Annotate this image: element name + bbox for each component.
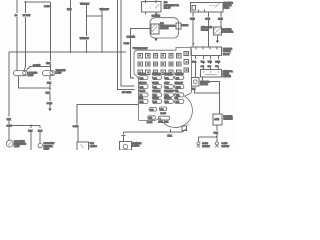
park lamp circle bbox=[6, 140, 13, 147]
diode D1 box bbox=[176, 23, 181, 29]
svg-text:BLK: BLK bbox=[164, 122, 169, 124]
wire blower stub 3 bbox=[210, 56, 212, 70]
relay switch diagonal bbox=[155, 4, 159, 8]
wire ORN drop 2 bbox=[207, 12, 209, 47]
license connector dash bbox=[122, 134, 126, 136]
svg-text:TAIL: TAIL bbox=[90, 142, 95, 145]
clutch coil hatch bbox=[152, 25, 158, 32]
arrow resistor stub bbox=[216, 41, 219, 44]
relay inner dot bbox=[149, 7, 150, 8]
blower switch box bbox=[201, 70, 222, 78]
svg-text:TAN/WHT: TAN/WHT bbox=[80, 37, 90, 40]
svg-text:BLK: BLK bbox=[7, 119, 12, 121]
hi blower inner ticks bbox=[196, 47, 217, 49]
svg-text:BLK: BLK bbox=[46, 92, 51, 94]
cloud pill 1 bbox=[149, 108, 156, 112]
junction license bbox=[170, 131, 172, 133]
fuse cavity pill r2c3 bbox=[164, 85, 173, 89]
svg-text:LAMP: LAMP bbox=[14, 145, 20, 148]
svg-text:A/C: A/C bbox=[160, 22, 164, 25]
junction block inner fuse bbox=[192, 6, 196, 10]
wire to ground 2 bbox=[216, 137, 218, 142]
svg-text:YEL: YEL bbox=[201, 61, 206, 63]
fuse cavity pill r4c4 bbox=[175, 99, 184, 103]
wire blower stub 2 bbox=[203, 56, 205, 70]
svg-text:HAZARD: HAZARD bbox=[152, 72, 160, 75]
svg-text:BLOCK: BLOCK bbox=[201, 30, 209, 32]
svg-text:DK GRN: DK GRN bbox=[152, 15, 161, 17]
svg-text:* FUSE BLOCK: * FUSE BLOCK bbox=[133, 48, 148, 50]
svg-text:ORN: ORN bbox=[215, 61, 220, 63]
svg-text:PWR WDO: PWR WDO bbox=[164, 91, 174, 93]
ground bus bottom-left bbox=[9, 125, 40, 127]
svg-text:PANEL: PANEL bbox=[223, 73, 231, 76]
svg-text:TAIL: TAIL bbox=[175, 90, 179, 93]
connector tick bbox=[187, 124, 190, 126]
hi blower relay box bbox=[191, 47, 221, 55]
wire ORN drop 3 bbox=[220, 12, 222, 27]
fuse cavity pill r3c1 bbox=[139, 93, 148, 97]
cloud pill 3 bbox=[148, 116, 156, 120]
svg-text:TAN/WHT: TAN/WHT bbox=[100, 8, 110, 11]
svg-text:MARKER: MARKER bbox=[44, 145, 53, 148]
fuse cavity pill r1c3 bbox=[164, 76, 173, 80]
tail lamp inner bbox=[81, 145, 84, 149]
ground G103 bbox=[215, 142, 218, 145]
wire down to connector bbox=[219, 93, 221, 114]
headlamp R drop from bus bbox=[49, 52, 51, 71]
svg-text:RESISTOR: RESISTOR bbox=[222, 32, 233, 34]
fuse cavity pill r2c1 bbox=[139, 85, 148, 89]
wire ORN drop 1 bbox=[192, 12, 194, 47]
fuse cavity pill r3c2 bbox=[152, 93, 161, 97]
marker lamp circle bbox=[38, 143, 42, 147]
fuse cavity pill r3c3 bbox=[164, 93, 173, 97]
license lamp box bbox=[120, 142, 132, 151]
headlamp R inner circle bbox=[50, 72, 53, 75]
fuse cavity pill r1c4 bbox=[175, 76, 184, 80]
wire between lamps bbox=[26, 67, 50, 71]
wire clutch to fuse block bbox=[131, 29, 152, 78]
connector box on cloud edge bbox=[182, 126, 187, 131]
fuse block outline bbox=[134, 47, 192, 127]
svg-text:ORN: ORN bbox=[214, 119, 219, 121]
blower resistor R1 bbox=[213, 27, 221, 35]
svg-text:18 BRN: 18 BRN bbox=[33, 65, 41, 67]
wire left ground vertical bbox=[8, 52, 10, 140]
svg-text:PNK: PNK bbox=[46, 63, 51, 65]
wire connector down bbox=[216, 125, 218, 137]
svg-text:C 280: C 280 bbox=[147, 122, 153, 124]
cloud pill 2 bbox=[159, 107, 166, 111]
junction block ticks bbox=[198, 10, 204, 13]
blower motor box bbox=[192, 78, 199, 87]
fuse grid row 3 bbox=[138, 68, 189, 75]
wire TAN/WHT vertical bbox=[86, 5, 88, 52]
headlamp R oval bbox=[43, 71, 56, 76]
park lamp filament bbox=[8, 142, 11, 145]
clutch connector cloud bbox=[150, 18, 179, 38]
junction lamp ground bbox=[49, 87, 51, 89]
wire BRN vertical bbox=[70, 0, 72, 52]
junction motor ground bbox=[219, 92, 221, 94]
svg-text:FU STEM: FU STEM bbox=[122, 92, 131, 94]
wire top horizontal to C100 bbox=[25, 1, 50, 3]
license lamp inner bbox=[123, 144, 127, 148]
wire long pair inner bbox=[121, 0, 134, 86]
relay U1 box bbox=[142, 2, 162, 13]
svg-text:TAN/WHT: TAN/WHT bbox=[80, 2, 90, 5]
fuse dots bbox=[139, 52, 187, 73]
svg-text:LAMPS: LAMPS bbox=[132, 144, 140, 147]
junction top-left bbox=[24, 1, 26, 3]
wire switch ground bbox=[203, 77, 220, 93]
svg-text:L/T HEAD: L/T HEAD bbox=[28, 72, 38, 75]
svg-text:PPL: PPL bbox=[192, 61, 197, 63]
fuse cavity pill r2c2 bbox=[152, 85, 161, 89]
svg-text:C 100: C 100 bbox=[44, 6, 50, 8]
svg-text:BLK: BLK bbox=[214, 132, 219, 134]
wire below lamp R bbox=[49, 76, 51, 109]
svg-text:GROUND: GROUND bbox=[223, 118, 233, 120]
ground crossbar bbox=[198, 136, 217, 138]
license drop bbox=[123, 132, 125, 142]
junction bottom-left bbox=[30, 125, 32, 127]
node dot bus 1 bbox=[50, 51, 52, 53]
svg-text:PL LPS: PL LPS bbox=[139, 91, 146, 93]
svg-text:PARK/TURN: PARK/TURN bbox=[14, 142, 26, 145]
fuse cavity pill r4c2 bbox=[152, 99, 161, 103]
svg-text:ORN: ORN bbox=[190, 18, 195, 20]
fuse cavity pill r1c1 bbox=[139, 76, 148, 80]
svg-text:FEED: FEED bbox=[224, 8, 230, 10]
svg-text:CLUTCH: CLUTCH bbox=[160, 28, 169, 30]
svg-text:MOTOR: MOTOR bbox=[200, 84, 208, 86]
svg-text:BAT LPS: BAT LPS bbox=[139, 81, 147, 84]
svg-text:LAMPS: LAMPS bbox=[90, 145, 98, 148]
svg-text:C 210: C 210 bbox=[124, 43, 130, 45]
wire resistor stub bbox=[217, 35, 219, 41]
svg-text:BLK: BLK bbox=[47, 82, 52, 84]
junction terminal at block bbox=[132, 77, 134, 79]
wire left vertical 2 bbox=[24, 2, 25, 71]
off-page arrow down bbox=[48, 109, 51, 112]
node dot bus 5 bbox=[120, 51, 122, 53]
fuse cavity pill r1c2 bbox=[152, 76, 161, 80]
fuse grid row 1 bbox=[138, 51, 189, 58]
relay coil tick 2 bbox=[155, 0, 157, 3]
blower motor circle bbox=[193, 80, 197, 84]
ground G102 bbox=[197, 142, 200, 145]
svg-text:RH FRT: RH FRT bbox=[222, 146, 230, 148]
wire drop B bbox=[39, 126, 41, 144]
svg-text:LAMP: LAMP bbox=[56, 72, 62, 75]
svg-text:BLK: BLK bbox=[28, 130, 33, 132]
svg-text:GAUGES: GAUGES bbox=[152, 90, 161, 93]
relay stub left bbox=[145, 12, 147, 15]
relay coil tick 1 bbox=[145, 0, 147, 3]
headlamp L inner circle bbox=[23, 71, 26, 74]
svg-text:LT GRN: LT GRN bbox=[23, 15, 31, 17]
connector box C2 bbox=[213, 114, 222, 125]
wire to ground 1 bbox=[197, 137, 199, 142]
node dot bus 3 bbox=[86, 51, 88, 53]
svg-text:PNK: PNK bbox=[158, 122, 163, 124]
svg-text:SWITCH: SWITCH bbox=[223, 76, 232, 78]
svg-text:LAMP: LAMP bbox=[28, 74, 34, 77]
main bus horizontal bbox=[9, 51, 126, 53]
svg-text:ORN: ORN bbox=[205, 18, 210, 20]
switch inner marks bbox=[204, 71, 219, 75]
svg-text:BLK: BLK bbox=[191, 88, 196, 90]
fuse cavity pill r3c4 bbox=[175, 93, 184, 97]
wire relay to clutch bbox=[155, 12, 157, 13]
headlamp L oval bbox=[14, 71, 28, 76]
svg-text:DIODE: DIODE bbox=[182, 25, 189, 27]
svg-text:STOP: STOP bbox=[176, 87, 182, 89]
junction dot on drop1 bbox=[193, 43, 195, 45]
wire below lamp L bbox=[19, 76, 50, 89]
tail lamp box bbox=[77, 142, 89, 151]
wire blower stub 1 bbox=[194, 56, 196, 78]
node dot bus 4 bbox=[101, 51, 103, 53]
svg-text:RELAY: RELAY bbox=[223, 53, 230, 56]
wire clutch down arrow bbox=[155, 37, 157, 40]
fuse cavity pill r4c3 bbox=[164, 99, 173, 103]
junction block J1 bbox=[191, 3, 224, 13]
svg-text:DK GRN: DK GRN bbox=[127, 36, 136, 38]
fuse grid row 2 bbox=[138, 60, 189, 67]
tail lamp feed wire bbox=[77, 104, 139, 142]
license feed from cloud bbox=[169, 129, 171, 132]
svg-text:PNK: PNK bbox=[168, 135, 173, 137]
wire C100 drop bbox=[49, 2, 51, 52]
clutch coil box bbox=[151, 24, 159, 34]
svg-text:RH FRT: RH FRT bbox=[202, 146, 210, 148]
svg-text:HTR AC: HTR AC bbox=[164, 96, 172, 99]
wire left vertical 1 bbox=[16, 0, 18, 71]
cloud pill 4 bbox=[158, 116, 169, 120]
bottom wire run bbox=[124, 129, 186, 132]
svg-text:C 400: C 400 bbox=[73, 126, 79, 128]
wire motor ground bbox=[194, 86, 219, 93]
svg-text:TAN: TAN bbox=[208, 60, 213, 63]
svg-text:PWR ACC: PWR ACC bbox=[175, 72, 184, 75]
svg-text:ORN: ORN bbox=[218, 18, 223, 20]
wire blower stub 4 bbox=[217, 56, 219, 70]
junction ground node bbox=[216, 136, 218, 138]
fuse cavity pill r2c4 bbox=[175, 85, 184, 89]
svg-text:BRN: BRN bbox=[67, 9, 72, 11]
arrow into clutch bbox=[155, 13, 158, 16]
svg-text:A/C: A/C bbox=[164, 1, 168, 4]
svg-text:LAMP: LAMP bbox=[44, 147, 50, 150]
node dot bus 2 bbox=[70, 51, 72, 53]
wire stub cross bbox=[87, 15, 102, 17]
junction block dots bbox=[210, 5, 211, 6]
junction stub dot bbox=[86, 15, 88, 17]
wire long pair outer bbox=[118, 0, 135, 90]
fuse cavity pill r4c1 bbox=[139, 99, 148, 103]
junction block diagonal bbox=[215, 3, 219, 7]
svg-text:18: 18 bbox=[15, 15, 18, 17]
svg-text:RELAY: RELAY bbox=[164, 6, 171, 9]
wire drop A bbox=[30, 126, 32, 151]
wire TAN/WHT stub 2 bbox=[101, 11, 103, 52]
svg-text:BLK: BLK bbox=[38, 130, 43, 132]
svg-text:S 116: S 116 bbox=[47, 103, 53, 105]
svg-text:C 280: C 280 bbox=[160, 113, 166, 115]
resistor hatch bbox=[214, 27, 221, 34]
svg-text:R/T HEAD: R/T HEAD bbox=[56, 69, 66, 72]
